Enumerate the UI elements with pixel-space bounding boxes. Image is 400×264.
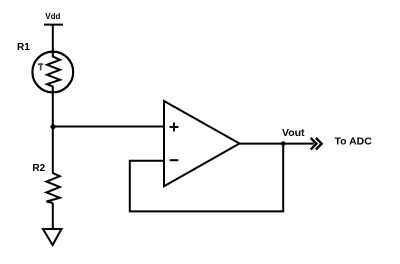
wire R2 to ground bbox=[52, 203, 54, 229]
wire R1 bottom to node A bbox=[52, 93, 54, 127]
node A junction dot bbox=[50, 124, 55, 129]
svg-text:R2: R2 bbox=[32, 163, 45, 174]
power symbol Vdd bar bbox=[44, 24, 63, 26]
wire node A down to R2 bbox=[52, 127, 54, 172]
ground bbox=[43, 229, 62, 245]
wire node A to op-amp + input bbox=[53, 126, 164, 128]
off-page connector double arrow bbox=[311, 138, 322, 150]
resistor R2 bbox=[47, 172, 60, 203]
svg-text:Vdd: Vdd bbox=[45, 12, 60, 21]
op-amp U1 body bbox=[164, 101, 240, 186]
wire Vdd bar to thermistor R1 top bbox=[52, 25, 54, 52]
wire op-amp output to arrow bbox=[240, 143, 314, 145]
thermistor R1 bbox=[32, 51, 73, 93]
op-amp + input marker bbox=[170, 123, 179, 132]
node Vout junction dot bbox=[281, 141, 286, 146]
feedback wire from - input down and around to output bbox=[130, 144, 283, 212]
svg-text:R1: R1 bbox=[17, 42, 30, 53]
svg-text:To ADC: To ADC bbox=[335, 136, 373, 148]
thermistor letter T bbox=[38, 63, 43, 70]
op-amp - input marker bbox=[170, 159, 179, 161]
svg-text:Vout: Vout bbox=[282, 127, 305, 139]
